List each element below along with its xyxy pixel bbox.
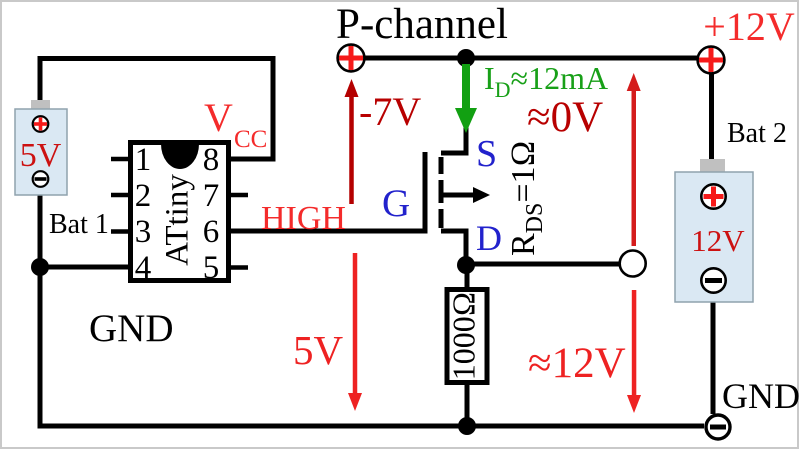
resistor 1000 ohm (445, 290, 487, 383)
wire source branch: top rail node down to MOSFET S (441, 58, 466, 153)
label HIGH (261, 200, 346, 237)
wire top rail (+12V) from P-channel terminal to +12V terminal (351, 56, 711, 61)
svg-text:-7V: -7V (359, 89, 421, 134)
label S (source) (476, 133, 497, 175)
svg-text:HIGH: HIGH (261, 200, 346, 237)
transistor Q1 P-channel MOSFET (425, 152, 490, 234)
svg-text:D: D (476, 218, 502, 258)
svg-text:RDS=1Ω: RDS=1Ω (505, 140, 548, 256)
svg-text:5V: 5V (20, 137, 62, 174)
svg-text:Bat 2: Bat 2 (727, 118, 787, 149)
label Id ~ 12mA (484, 60, 608, 102)
svg-text:V: V (204, 95, 233, 140)
svg-text:S: S (476, 133, 497, 175)
voltage arrow 5V (down, bright red) (348, 253, 362, 411)
svg-text:5: 5 (203, 250, 220, 286)
svg-text:≈12V: ≈12V (528, 340, 626, 387)
title P-channel (336, 1, 508, 48)
svg-text:GND: GND (89, 307, 174, 350)
wire ground rail: battery 1 - down, across bottom (40, 193, 704, 426)
svg-text:2: 2 (135, 178, 152, 214)
wire drain node to open terminal (466, 262, 619, 267)
svg-text:Bat 1: Bat 1 (49, 209, 109, 240)
svg-text:6: 6 (203, 214, 220, 250)
svg-text:+12V: +12V (703, 4, 795, 49)
wire ground node to pin 4 (40, 265, 129, 270)
svg-text:G: G (382, 182, 410, 225)
IC U1 ATtiny (111, 142, 248, 286)
battery Bat 1 (5V) (15, 100, 67, 195)
label Vcc (204, 95, 267, 153)
svg-text:≈0V: ≈0V (527, 94, 603, 141)
label 5V (293, 327, 344, 373)
terminal +12V (right circled cross) (698, 47, 725, 74)
terminal open circle (drain probe) (620, 251, 646, 277)
svg-text:3: 3 (135, 214, 152, 250)
terminal P-channel + (left circled cross) (338, 45, 365, 72)
svg-text:5V: 5V (293, 327, 344, 373)
node drain junction (457, 256, 475, 274)
svg-text:4: 4 (135, 250, 152, 286)
voltage arrow -7V (up, dark red) (345, 79, 359, 204)
label -7V (359, 89, 421, 134)
svg-text:1000Ω: 1000Ω (445, 292, 481, 381)
label Bat 1 (49, 209, 109, 240)
node ground rail / pin 4 junction (31, 258, 49, 276)
wire resistor bottom to ground rail (465, 383, 470, 427)
label Bat 2 (727, 118, 787, 149)
svg-text:CC: CC (234, 126, 267, 153)
voltage arrow ~12V (down, red) (627, 290, 641, 413)
svg-text:8: 8 (203, 142, 220, 178)
wire HIGH: pin 6 to gate (231, 229, 427, 234)
wire battery 2 - down to GND terminal (711, 302, 716, 414)
wire drain: MOSFET D down to drain node (441, 231, 466, 270)
svg-text:12V: 12V (691, 223, 745, 258)
wire Vcc: battery 1 + up, across top-left, down to pin 8 (40, 59, 273, 160)
voltage arrow ~0V side (up, red) (627, 73, 641, 246)
label ~12V (528, 340, 626, 387)
wire drain node to resistor top (465, 265, 470, 290)
svg-text:7: 7 (203, 178, 220, 214)
node ground rail / resistor junction (458, 417, 476, 435)
battery Bat 2 (12V) (675, 159, 753, 302)
svg-text:P-channel: P-channel (336, 1, 508, 48)
svg-text:GND: GND (722, 376, 800, 416)
current arrow Id (green) (455, 64, 477, 133)
label D (drain) (476, 218, 502, 258)
svg-text:1: 1 (135, 142, 152, 178)
label GND (right) (722, 376, 800, 416)
ground terminal (circled minus) (706, 415, 730, 439)
svg-text:ATtiny: ATtiny (160, 174, 196, 266)
label Rds = 1 ohm (505, 140, 548, 256)
label +12V (703, 4, 795, 49)
label GND (left) (89, 307, 174, 350)
label G (gate) (382, 182, 410, 225)
wire +12V terminal down to battery 2 + (709, 72, 714, 162)
label ~0V (527, 94, 603, 141)
node top rail junction (457, 49, 475, 67)
